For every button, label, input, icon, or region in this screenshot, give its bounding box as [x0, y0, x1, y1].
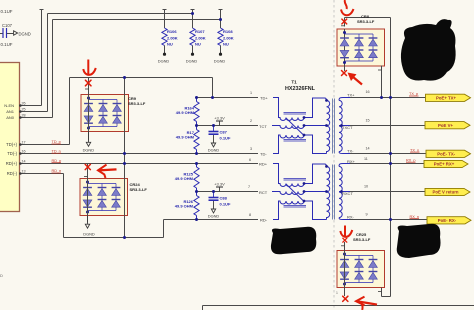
svg-text:RD_n: RD_n [52, 169, 62, 173]
svg-text:TD_n: TD_n [52, 149, 61, 153]
svg-text:1: 1 [250, 91, 252, 95]
svg-text:DGND: DGND [83, 147, 95, 152]
svg-text:RX-: RX- [347, 215, 355, 220]
svg-text:RCT: RCT [259, 190, 268, 195]
svg-text:PoE- RX-: PoE- RX- [438, 218, 457, 223]
svg-text:14: 14 [22, 159, 26, 163]
svg-text:9: 9 [366, 213, 368, 217]
svg-text:0.1UF: 0.1UF [1, 42, 13, 47]
svg-text:PoE- TX-: PoE- TX- [437, 151, 455, 156]
svg-text:15: 15 [366, 119, 370, 123]
svg-text:DGND: DGND [208, 214, 220, 219]
svg-text:SR3.3-LF: SR3.3-LF [357, 19, 375, 24]
svg-text:N-EN: N-EN [4, 103, 14, 108]
svg-text:RD(+): RD(+) [6, 161, 18, 166]
svg-text:DGND: DGND [208, 148, 220, 153]
svg-text:2: 2 [250, 119, 252, 123]
svg-text:NU: NU [223, 42, 229, 47]
svg-text:SR3.3-LF: SR3.3-LF [353, 237, 371, 242]
svg-text:PoE V+: PoE V+ [438, 123, 453, 128]
svg-text:2.00K: 2.00K [223, 36, 234, 41]
svg-text:AN0: AN0 [6, 115, 15, 120]
svg-text:0.1UF: 0.1UF [220, 136, 231, 141]
svg-text:DGND: DGND [19, 31, 31, 36]
svg-text:DGND: DGND [214, 58, 226, 63]
svg-text:25: 25 [22, 107, 26, 111]
svg-text:RX+: RX+ [347, 159, 356, 164]
svg-text:DGND: DGND [83, 232, 95, 237]
svg-text:RD-: RD- [260, 217, 268, 222]
svg-text:17: 17 [22, 140, 26, 144]
svg-text:R108: R108 [223, 29, 233, 34]
svg-text:28: 28 [22, 113, 26, 117]
svg-text:14: 14 [366, 147, 370, 151]
svg-text:RX_n: RX_n [410, 215, 420, 219]
svg-text:SR3.3-LF: SR3.3-LF [130, 187, 148, 192]
svg-text:8: 8 [249, 213, 251, 217]
svg-text:D: D [0, 273, 3, 278]
svg-text:DGND: DGND [158, 58, 170, 63]
svg-text:NU: NU [195, 42, 201, 47]
svg-text:RD_p: RD_p [52, 159, 62, 163]
svg-text:C107: C107 [2, 23, 13, 28]
svg-text:TD(+): TD(+) [6, 142, 17, 147]
svg-text:7: 7 [248, 185, 250, 189]
svg-text:TX+: TX+ [347, 93, 355, 98]
svg-text:NU: NU [167, 42, 173, 47]
svg-text:TCT: TCT [259, 124, 267, 129]
svg-text:TX_p: TX_p [409, 92, 418, 96]
svg-text:TD-: TD- [260, 151, 267, 156]
svg-text:R106: R106 [167, 29, 177, 34]
svg-text:6: 6 [249, 158, 251, 162]
svg-text:49.9 OHM: 49.9 OHM [176, 135, 195, 140]
svg-text:C88: C88 [220, 196, 228, 201]
svg-text:+3.3V: +3.3V [214, 182, 225, 187]
svg-text:TX-: TX- [347, 149, 354, 154]
svg-text:49.9 OHM: 49.9 OHM [176, 110, 195, 115]
svg-text:RX_p: RX_p [406, 158, 416, 162]
svg-text:49.9 OHM: 49.9 OHM [175, 203, 194, 208]
svg-text:PoE+ RX+: PoE+ RX+ [434, 162, 455, 167]
svg-text:RD(-): RD(-) [7, 171, 18, 176]
svg-text:R107: R107 [195, 29, 205, 34]
svg-text:TX_n: TX_n [410, 148, 419, 152]
svg-text:2.00K: 2.00K [167, 36, 178, 41]
svg-text:0.1UF: 0.1UF [1, 9, 13, 14]
svg-text:0.1UF: 0.1UF [220, 202, 231, 207]
svg-text:DGND: DGND [186, 58, 198, 63]
svg-text:+3.3V: +3.3V [214, 116, 225, 121]
svg-text:11: 11 [364, 157, 368, 161]
svg-text:1: 1 [336, 291, 338, 295]
svg-text:10: 10 [364, 185, 368, 189]
svg-text:SR3.3-LF: SR3.3-LF [128, 101, 146, 106]
svg-text:C87: C87 [220, 130, 228, 135]
svg-text:TXCT: TXCT [342, 125, 353, 130]
svg-text:TD_p: TD_p [52, 140, 61, 144]
svg-text:TD(-): TD(-) [7, 151, 17, 156]
svg-text:PoE+ TX+: PoE+ TX+ [436, 95, 457, 100]
svg-text:26: 26 [22, 101, 26, 105]
svg-text:16: 16 [366, 90, 370, 94]
svg-text:2.00K: 2.00K [195, 36, 206, 41]
svg-text:49.9 OHM: 49.9 OHM [175, 176, 194, 181]
svg-text:TD+: TD+ [260, 95, 268, 100]
svg-text:RD+: RD+ [259, 161, 268, 166]
svg-text:RXCT: RXCT [342, 191, 353, 196]
svg-text:16: 16 [22, 149, 26, 153]
svg-text:3: 3 [250, 147, 252, 151]
svg-text:AN1: AN1 [6, 109, 15, 114]
svg-text:13: 13 [22, 169, 26, 173]
svg-text:T1: T1 [291, 80, 297, 85]
svg-text:HX2326FNL: HX2326FNL [285, 86, 316, 92]
svg-text:PoE V return: PoE V return [432, 190, 458, 195]
